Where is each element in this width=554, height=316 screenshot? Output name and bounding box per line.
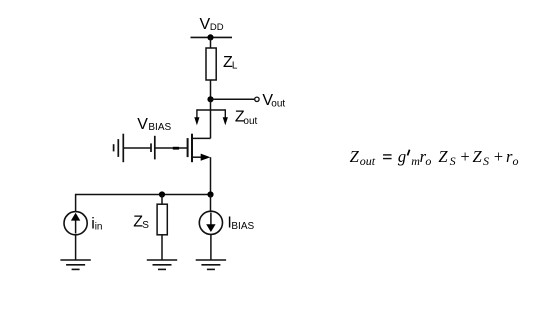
svg-text:V: V <box>200 16 211 33</box>
svg-text:out: out <box>271 98 285 109</box>
svg-text:BIAS: BIAS <box>148 122 171 133</box>
wire iin to ground <box>75 234 77 260</box>
svg-text:V: V <box>137 116 148 133</box>
wire ZL to Vout node <box>210 80 212 99</box>
svg-text:Z: Z <box>350 147 360 166</box>
wire source down <box>210 157 212 194</box>
svg-text:L: L <box>232 61 238 72</box>
svg-text:Z: Z <box>438 147 448 166</box>
ground ZS <box>147 260 177 269</box>
svg-text:S: S <box>483 154 489 168</box>
wire ZS to ground <box>161 235 163 260</box>
junction dot at VDD <box>207 34 213 40</box>
power rail VDD <box>191 36 233 38</box>
wire to Vout terminal <box>211 98 255 100</box>
wire rail down to iin <box>75 194 77 212</box>
wire node to ZS <box>161 195 163 204</box>
svg-text:S: S <box>450 154 456 168</box>
junction dot ZS node <box>159 191 165 197</box>
resistor ZL <box>206 48 216 80</box>
battery VBIAS cell 2 <box>151 136 155 160</box>
wire Vout node to drain <box>210 99 212 138</box>
svg-text:BIAS: BIAS <box>231 221 254 232</box>
svg-text:=: = <box>381 147 393 167</box>
svg-text:out: out <box>360 154 376 168</box>
svg-text:in: in <box>95 221 103 232</box>
junction dot Vout node <box>207 96 213 102</box>
svg-text:+: + <box>459 147 470 166</box>
svg-text:S: S <box>142 220 149 231</box>
wire battery to gate <box>156 147 187 149</box>
svg-text:DD: DD <box>210 22 224 33</box>
wire bottom rail <box>76 194 211 196</box>
terminal Vout open circle <box>255 97 259 101</box>
wire thick dash on gate wire <box>173 147 179 150</box>
battery VBIAS cell 1 <box>114 134 124 163</box>
svg-text:+: + <box>493 147 504 166</box>
wire node to IBIAS <box>210 195 212 212</box>
svg-text:o: o <box>425 154 431 168</box>
svg-text:o: o <box>513 154 519 168</box>
wire between battery cells <box>124 147 150 149</box>
wire IBIAS to ground <box>210 234 212 260</box>
formula Zout equation <box>350 147 519 168</box>
svg-text:g: g <box>398 147 406 166</box>
resistor ZS <box>157 204 167 235</box>
junction dot source node <box>207 191 213 197</box>
current source iin <box>64 212 87 235</box>
svg-text:out: out <box>243 116 257 127</box>
ground iin <box>60 260 90 269</box>
transistor M1 <box>188 134 211 163</box>
impedance indicator Zout arrows <box>194 109 228 125</box>
ground IBIAS <box>196 260 226 269</box>
svg-text:Z: Z <box>473 147 483 166</box>
current source IBIAS <box>199 211 222 234</box>
wire VDD to ZL <box>210 37 212 48</box>
